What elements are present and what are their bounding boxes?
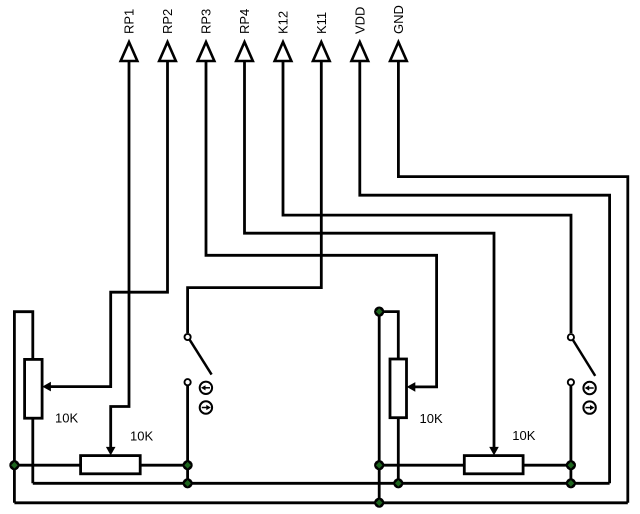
wire right pot top to GND branch bbox=[379, 312, 398, 503]
switch S1 bottom contact bbox=[185, 379, 191, 385]
svg-text:10K: 10K bbox=[130, 428, 153, 443]
switch S2 down-direction symbol (circled arrow) bbox=[583, 401, 595, 413]
wiper arrowhead into right vertical pot bbox=[407, 382, 416, 392]
wire rail2 (VDD rail) bbox=[33, 482, 610, 485]
pin arrow RP3 bbox=[198, 42, 215, 61]
junction right switch on rail2 bbox=[566, 478, 576, 488]
wire left pot bottom to rail2 bbox=[31, 418, 34, 483]
wire RP2 net: shaft down, left, down, into left vertical pot wiper bbox=[50, 61, 167, 387]
junction left switch on rail1 bbox=[183, 460, 193, 470]
svg-text:10K: 10K bbox=[420, 411, 443, 426]
wire K11 net: shaft down, left, down to left switch top bbox=[188, 61, 322, 333]
junction left switch on rail2 bbox=[183, 478, 193, 488]
wiper arrowhead into left horizontal pot bbox=[106, 447, 116, 456]
junction right switch on rail1 bbox=[566, 460, 576, 470]
svg-text:10K: 10K bbox=[55, 411, 78, 426]
potentiometer RP4 10K (right horizontal) body bbox=[464, 456, 523, 474]
junction GND branch on bottom rail bbox=[374, 498, 384, 508]
potentiometer RP3 10K (right vertical) body bbox=[390, 359, 407, 418]
pin arrow GND bbox=[390, 42, 407, 61]
pin arrow K11 bbox=[313, 42, 330, 61]
switch S2 (right, K12) blade bbox=[573, 340, 596, 376]
pin arrow RP4 bbox=[236, 42, 253, 61]
wire RP1 net: shaft down, jog left, into horizontal pot wiper bbox=[111, 61, 129, 448]
switch S2 up-direction symbol (circled arrow) bbox=[583, 382, 595, 394]
junction GND branch on rail1 right bbox=[374, 460, 384, 470]
wiper arrowhead into right horizontal pot bbox=[489, 447, 499, 456]
svg-text:RP3: RP3 bbox=[199, 9, 214, 34]
svg-text:RP1: RP1 bbox=[122, 9, 137, 34]
switch S1 top contact bbox=[185, 334, 191, 340]
pin arrow RP2 bbox=[159, 42, 176, 61]
svg-text:RP4: RP4 bbox=[237, 9, 252, 34]
wire rail1 right segment bbox=[379, 464, 571, 467]
switch S1 (left, K11) blade bbox=[189, 339, 211, 374]
wire K12 net: shaft down, right, down to right switch top bbox=[283, 61, 571, 333]
wire GND net: shaft down, right, down far right edge to bottom rail bbox=[398, 61, 627, 503]
switch S2 top contact bbox=[568, 334, 574, 340]
switch S2 bottom contact bbox=[568, 379, 574, 385]
svg-text:K11: K11 bbox=[314, 12, 329, 34]
wire VDD net: shaft down, right, down right edge to rail2 bbox=[360, 61, 610, 483]
potentiometer RP2 10K (left vertical) body bbox=[25, 359, 42, 418]
wire left switch bottom to rails bbox=[186, 385, 189, 483]
switch S1 up-direction symbol (circled arrow) bbox=[200, 382, 212, 394]
junction right pot bottom on rail2 bbox=[393, 478, 403, 488]
svg-text:10K: 10K bbox=[512, 428, 535, 443]
wiper arrowhead into left vertical pot bbox=[42, 382, 51, 392]
svg-text:GND: GND bbox=[391, 5, 406, 34]
svg-text:K12: K12 bbox=[276, 11, 291, 34]
wire RP3 net: shaft down, right, down, into right vertical pot wiper bbox=[206, 61, 437, 387]
pin arrow VDD bbox=[351, 42, 368, 61]
wire left pot top loop bbox=[14, 312, 32, 503]
wire RP4 net: shaft down, right, down to right horizontal pot wiper bbox=[245, 61, 495, 448]
svg-text:VDD: VDD bbox=[352, 7, 367, 34]
potentiometer RP1 10K (left horizontal) body bbox=[81, 456, 141, 474]
svg-text:RP2: RP2 bbox=[160, 9, 175, 34]
wire right pot bottom to rail2 bbox=[397, 418, 400, 484]
pin arrow RP1 bbox=[121, 42, 138, 61]
switch S1 down-direction symbol (circled arrow) bbox=[200, 401, 212, 413]
wire right switch bottom to rails bbox=[570, 385, 573, 483]
wire bottom rail (GND) bbox=[14, 501, 627, 504]
wire rail1 left segment bbox=[14, 464, 187, 467]
junction right pot top corner bbox=[374, 307, 384, 317]
pin arrow K12 bbox=[275, 42, 292, 61]
junction at left rail1 / left edge bbox=[9, 460, 19, 470]
